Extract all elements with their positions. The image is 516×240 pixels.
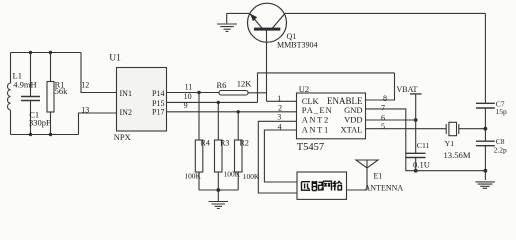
svg-text:13.56M: 13.56M [444,150,471,160]
svg-text:U2: U2 [299,84,309,94]
svg-text:PA_EN: PA_EN [302,105,333,115]
svg-text:ANTENNA: ANTENNA [365,183,404,192]
svg-text:T5457: T5457 [297,142,324,153]
svg-text:E1: E1 [374,171,383,180]
svg-text:P15: P15 [152,99,164,108]
svg-text:2: 2 [278,103,282,112]
svg-text:12: 12 [81,80,89,89]
svg-text:GND: GND [344,105,362,115]
svg-text:56k: 56k [55,86,69,96]
svg-text:R2: R2 [240,138,249,147]
svg-text:3: 3 [277,112,281,121]
svg-text:1: 1 [277,94,281,103]
svg-text:VDD: VDD [344,114,362,124]
svg-text:R4: R4 [201,138,210,147]
svg-text:330pF: 330pF [29,118,51,128]
svg-text:100K: 100K [243,172,260,181]
svg-text:100K: 100K [184,171,201,180]
svg-text:R6: R6 [217,80,227,90]
svg-text:C11: C11 [417,141,430,150]
svg-text:XTAL: XTAL [341,124,363,134]
svg-text:NPX: NPX [114,132,131,142]
svg-text:7: 7 [381,104,385,113]
svg-text:11: 11 [185,82,193,91]
svg-text:P14: P14 [152,89,164,98]
svg-text:5: 5 [381,122,385,131]
svg-text:4.9mH: 4.9mH [13,80,36,90]
svg-text:ANT2: ANT2 [302,114,330,124]
svg-text:Y1: Y1 [445,139,455,148]
svg-text:ANT1: ANT1 [302,124,330,134]
svg-text:8: 8 [383,94,387,103]
svg-text:2.2p: 2.2p [494,146,507,155]
svg-text:4: 4 [278,122,282,131]
svg-text:IN2: IN2 [120,108,132,117]
svg-text:13: 13 [81,105,89,114]
svg-text:VBAT: VBAT [397,85,418,94]
svg-text:U1: U1 [109,54,121,64]
svg-text:9: 9 [184,101,188,110]
svg-text:IN1: IN1 [120,89,132,98]
svg-text:12K: 12K [237,78,253,88]
svg-text:100K: 100K [224,170,241,179]
svg-text:10: 10 [184,92,192,101]
svg-text:15p: 15p [496,107,508,116]
svg-text:MMBT3904: MMBT3904 [277,40,317,49]
svg-text:P17: P17 [152,108,164,117]
svg-text:0.1U: 0.1U [413,160,431,170]
svg-text:R3: R3 [220,138,229,147]
